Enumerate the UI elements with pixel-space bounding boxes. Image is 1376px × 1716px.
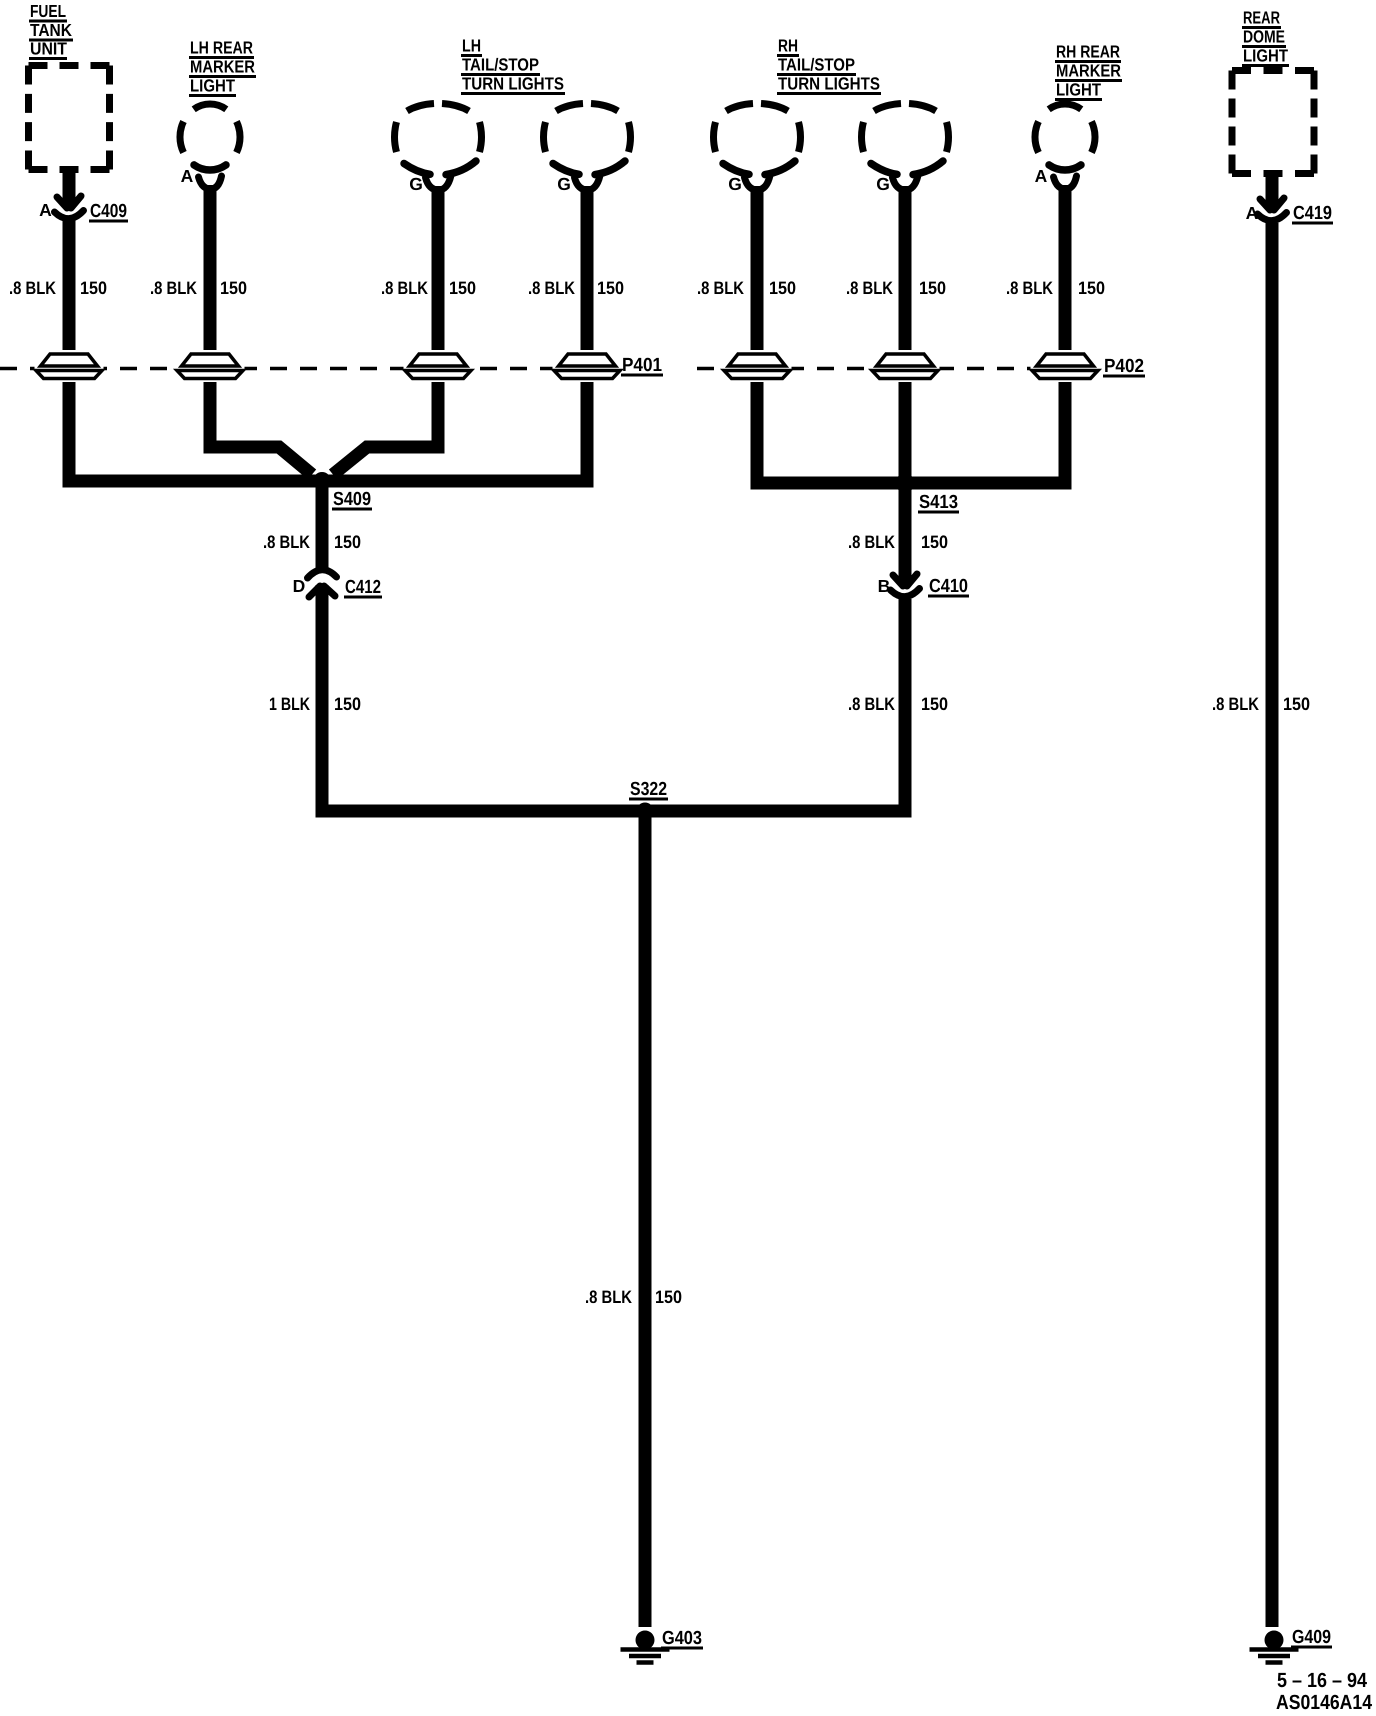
label S413 — [918, 492, 959, 514]
wire: C412 to S322 bus — [316, 585, 329, 817]
connector C419 in-line — [1258, 198, 1287, 221]
grommet P401 on fuel tank wire — [35, 350, 104, 382]
grommet P402 on RH tail lamp 2 wire — [871, 350, 940, 382]
wire label .8 BLK 150 (RH tail 2 wire) — [846, 278, 946, 298]
svg-text:TURN LIGHTS: TURN LIGHTS — [462, 74, 564, 94]
label G409 — [1291, 1627, 1332, 1649]
svg-text:REAR: REAR — [1243, 8, 1280, 28]
svg-text:150: 150 — [334, 532, 361, 552]
label P401 — [621, 355, 663, 377]
svg-text:150: 150 — [334, 694, 361, 714]
svg-text:FUEL: FUEL — [30, 1, 66, 21]
svg-text:TANK: TANK — [30, 20, 72, 40]
svg-text:5 – 16 – 94: 5 – 16 – 94 — [1277, 1669, 1368, 1692]
wire label .8 BLK 150 (LH tail 2 wire) — [528, 278, 624, 298]
svg-text:MARKER: MARKER — [190, 57, 255, 77]
lamp: RH tail/stop turn light 1, pin G — [714, 104, 801, 195]
wire: fuel tank unit to connector C409 — [63, 166, 76, 207]
svg-text:C412: C412 — [345, 577, 381, 598]
lamp: LH tail/stop turn light 1, pin G — [395, 104, 482, 195]
svg-text:LIGHT: LIGHT — [1056, 80, 1101, 100]
label: RH rear marker light — [1055, 42, 1122, 102]
svg-text:RH REAR: RH REAR — [1056, 42, 1120, 62]
wire label 1 BLK 150 (C412 to S322) — [269, 694, 361, 714]
date 5-16-94 — [1277, 1669, 1368, 1692]
svg-text:AS0146A14: AS0146A14 — [1276, 1691, 1373, 1714]
svg-text:P401: P401 — [622, 355, 662, 376]
pin A at C419 — [1246, 203, 1259, 223]
ground G403 — [621, 1631, 670, 1663]
pin B at C410 — [878, 576, 891, 596]
svg-text:150: 150 — [655, 1287, 682, 1307]
svg-text:.8 BLK: .8 BLK — [381, 278, 428, 298]
wire: RH tail/stop lamp 2 through S413 to connector C410 — [899, 186, 912, 586]
svg-text:TAIL/STOP: TAIL/STOP — [462, 55, 539, 75]
wire label .8 BLK 150 (LH marker wire) — [150, 278, 247, 298]
label C410 — [928, 576, 969, 598]
wire label .8 BLK 150 (fuel tank wire) — [9, 278, 107, 298]
svg-text:A: A — [181, 166, 194, 186]
svg-text:A: A — [1035, 166, 1048, 186]
svg-text:150: 150 — [220, 278, 247, 298]
svg-text:D: D — [293, 576, 306, 596]
connector C409 in-line — [55, 196, 84, 219]
svg-text:.8 BLK: .8 BLK — [9, 278, 56, 298]
grommet P402 on RH tail lamp 1 wire — [723, 350, 792, 382]
svg-text:DOME: DOME — [1243, 27, 1285, 47]
pin A at C409 — [39, 200, 52, 220]
dashed panel line at P402 — [697, 367, 1072, 371]
svg-text:LIGHT: LIGHT — [190, 76, 235, 96]
drawing number AS0146A14 — [1276, 1691, 1373, 1714]
svg-text:150: 150 — [921, 694, 948, 714]
svg-text:G: G — [728, 174, 742, 194]
wire label .8 BLK 150 (S322 to G403) — [585, 1287, 682, 1307]
wire label .8 BLK 150 (LH tail 1 wire) — [381, 278, 476, 298]
wire: C409 to S409 bus — [63, 220, 76, 487]
wire: LH rear marker light to S409 — [210, 185, 312, 475]
lamp: RH rear marker light, pin A — [1035, 104, 1095, 189]
label: LH tail/stop turn lights — [461, 36, 565, 96]
svg-text:LIGHT: LIGHT — [1243, 46, 1288, 66]
svg-text:C419: C419 — [1293, 203, 1332, 224]
wire: RH tail/stop lamp 1 to S413 bus — [751, 186, 764, 489]
bus: S322 splice bar — [316, 805, 912, 818]
grommet P401 on LH tail lamp 2 wire — [553, 350, 622, 382]
wire: RH rear marker light to S413 bus — [1059, 185, 1072, 489]
svg-text:.8 BLK: .8 BLK — [697, 278, 744, 298]
label C419 — [1292, 203, 1333, 225]
svg-text:G: G — [876, 174, 890, 194]
svg-text:C410: C410 — [929, 576, 968, 597]
label P402 — [1103, 356, 1145, 378]
wire: C419 to ground G409 — [1266, 223, 1279, 1627]
svg-text:UNIT: UNIT — [30, 39, 67, 59]
label: LH rear marker light — [189, 38, 256, 98]
svg-text:.8 BLK: .8 BLK — [846, 278, 893, 298]
bus: S413 splice bar — [751, 477, 1072, 490]
connector C410 in-line — [891, 574, 920, 597]
wire: rear dome light to connector C419 — [1266, 170, 1279, 209]
label S409 — [332, 489, 372, 511]
svg-text:150: 150 — [80, 278, 107, 298]
splice S409 — [313, 472, 331, 490]
svg-text:150: 150 — [449, 278, 476, 298]
svg-text:RH: RH — [778, 36, 798, 56]
grommet P402 on RH marker wire — [1031, 350, 1100, 382]
wire: S322 to ground G403 — [639, 806, 652, 1627]
label C409 — [89, 201, 128, 223]
wire: C410 to S322 bus — [899, 599, 912, 817]
rear dome light box — [1232, 71, 1314, 174]
wire label .8 BLK 150 (S413 to C410) — [848, 532, 948, 552]
svg-text:C409: C409 — [90, 201, 127, 222]
svg-text:TURN LIGHTS: TURN LIGHTS — [778, 74, 880, 94]
svg-text:S322: S322 — [630, 779, 667, 800]
label C412 — [344, 577, 382, 599]
label S322 — [629, 779, 668, 801]
dashed panel line at P401 — [0, 367, 594, 371]
svg-text:1 BLK: 1 BLK — [269, 694, 310, 714]
label: fuel tank unit — [29, 1, 73, 60]
svg-text:G409: G409 — [1292, 1627, 1331, 1648]
svg-text:A: A — [39, 200, 52, 220]
connector C412 in-line — [308, 570, 337, 597]
grommet P401 on LH tail lamp 1 wire — [404, 350, 473, 382]
wire label .8 BLK 150 (dome light wire) — [1212, 694, 1310, 714]
label G403 — [661, 1628, 703, 1650]
svg-text:B: B — [878, 576, 891, 596]
svg-text:150: 150 — [597, 278, 624, 298]
lamp: LH rear marker light, pin A — [180, 104, 240, 189]
wire label .8 BLK 150 (RH tail 1 wire) — [697, 278, 796, 298]
fuel tank unit box — [29, 66, 110, 170]
label: rear dome light — [1242, 8, 1289, 68]
wire: LH tail/stop lamp 1 to S409 — [333, 186, 438, 475]
svg-text:.8 BLK: .8 BLK — [263, 532, 310, 552]
svg-text:A: A — [1246, 203, 1259, 223]
splice S322 — [637, 803, 654, 820]
svg-text:.8 BLK: .8 BLK — [585, 1287, 632, 1307]
svg-text:S413: S413 — [919, 492, 958, 513]
wire label .8 BLK 150 (S409 to C412) — [263, 532, 361, 552]
svg-text:P402: P402 — [1104, 356, 1144, 377]
label: RH tail/stop turn lights — [777, 36, 881, 96]
svg-text:G403: G403 — [662, 1628, 702, 1649]
wire label .8 BLK 150 (C410 to S322) — [848, 694, 948, 714]
svg-text:150: 150 — [769, 278, 796, 298]
svg-text:S409: S409 — [333, 489, 371, 510]
wire: S409 to connector C412 — [316, 478, 329, 570]
svg-text:LH REAR: LH REAR — [190, 38, 253, 58]
ground G409 — [1250, 1631, 1299, 1663]
grommet P401 on LH marker wire — [176, 350, 245, 382]
svg-text:TAIL/STOP: TAIL/STOP — [778, 55, 855, 75]
svg-text:.8 BLK: .8 BLK — [1212, 694, 1259, 714]
svg-text:.8 BLK: .8 BLK — [150, 278, 197, 298]
lamp: RH tail/stop turn light 2, pin G — [862, 104, 949, 195]
svg-text:G: G — [409, 174, 423, 194]
svg-text:.8 BLK: .8 BLK — [848, 532, 895, 552]
wire: LH tail/stop lamp 2 to S409 bus — [581, 186, 594, 487]
lamp: LH tail/stop turn light 2, pin G — [544, 104, 631, 195]
pin D at C412 — [293, 576, 306, 596]
splice S413 — [896, 474, 915, 493]
svg-text:G: G — [557, 174, 571, 194]
svg-text:.8 BLK: .8 BLK — [528, 278, 575, 298]
wire label .8 BLK 150 (RH marker wire) — [1006, 278, 1105, 298]
svg-text:150: 150 — [919, 278, 946, 298]
svg-text:MARKER: MARKER — [1056, 61, 1121, 81]
svg-text:.8 BLK: .8 BLK — [848, 694, 895, 714]
svg-text:LH: LH — [462, 36, 481, 56]
svg-text:150: 150 — [921, 532, 948, 552]
bus: S409 splice bar — [63, 475, 594, 488]
svg-text:150: 150 — [1283, 694, 1310, 714]
svg-text:.8 BLK: .8 BLK — [1006, 278, 1053, 298]
svg-text:150: 150 — [1078, 278, 1105, 298]
